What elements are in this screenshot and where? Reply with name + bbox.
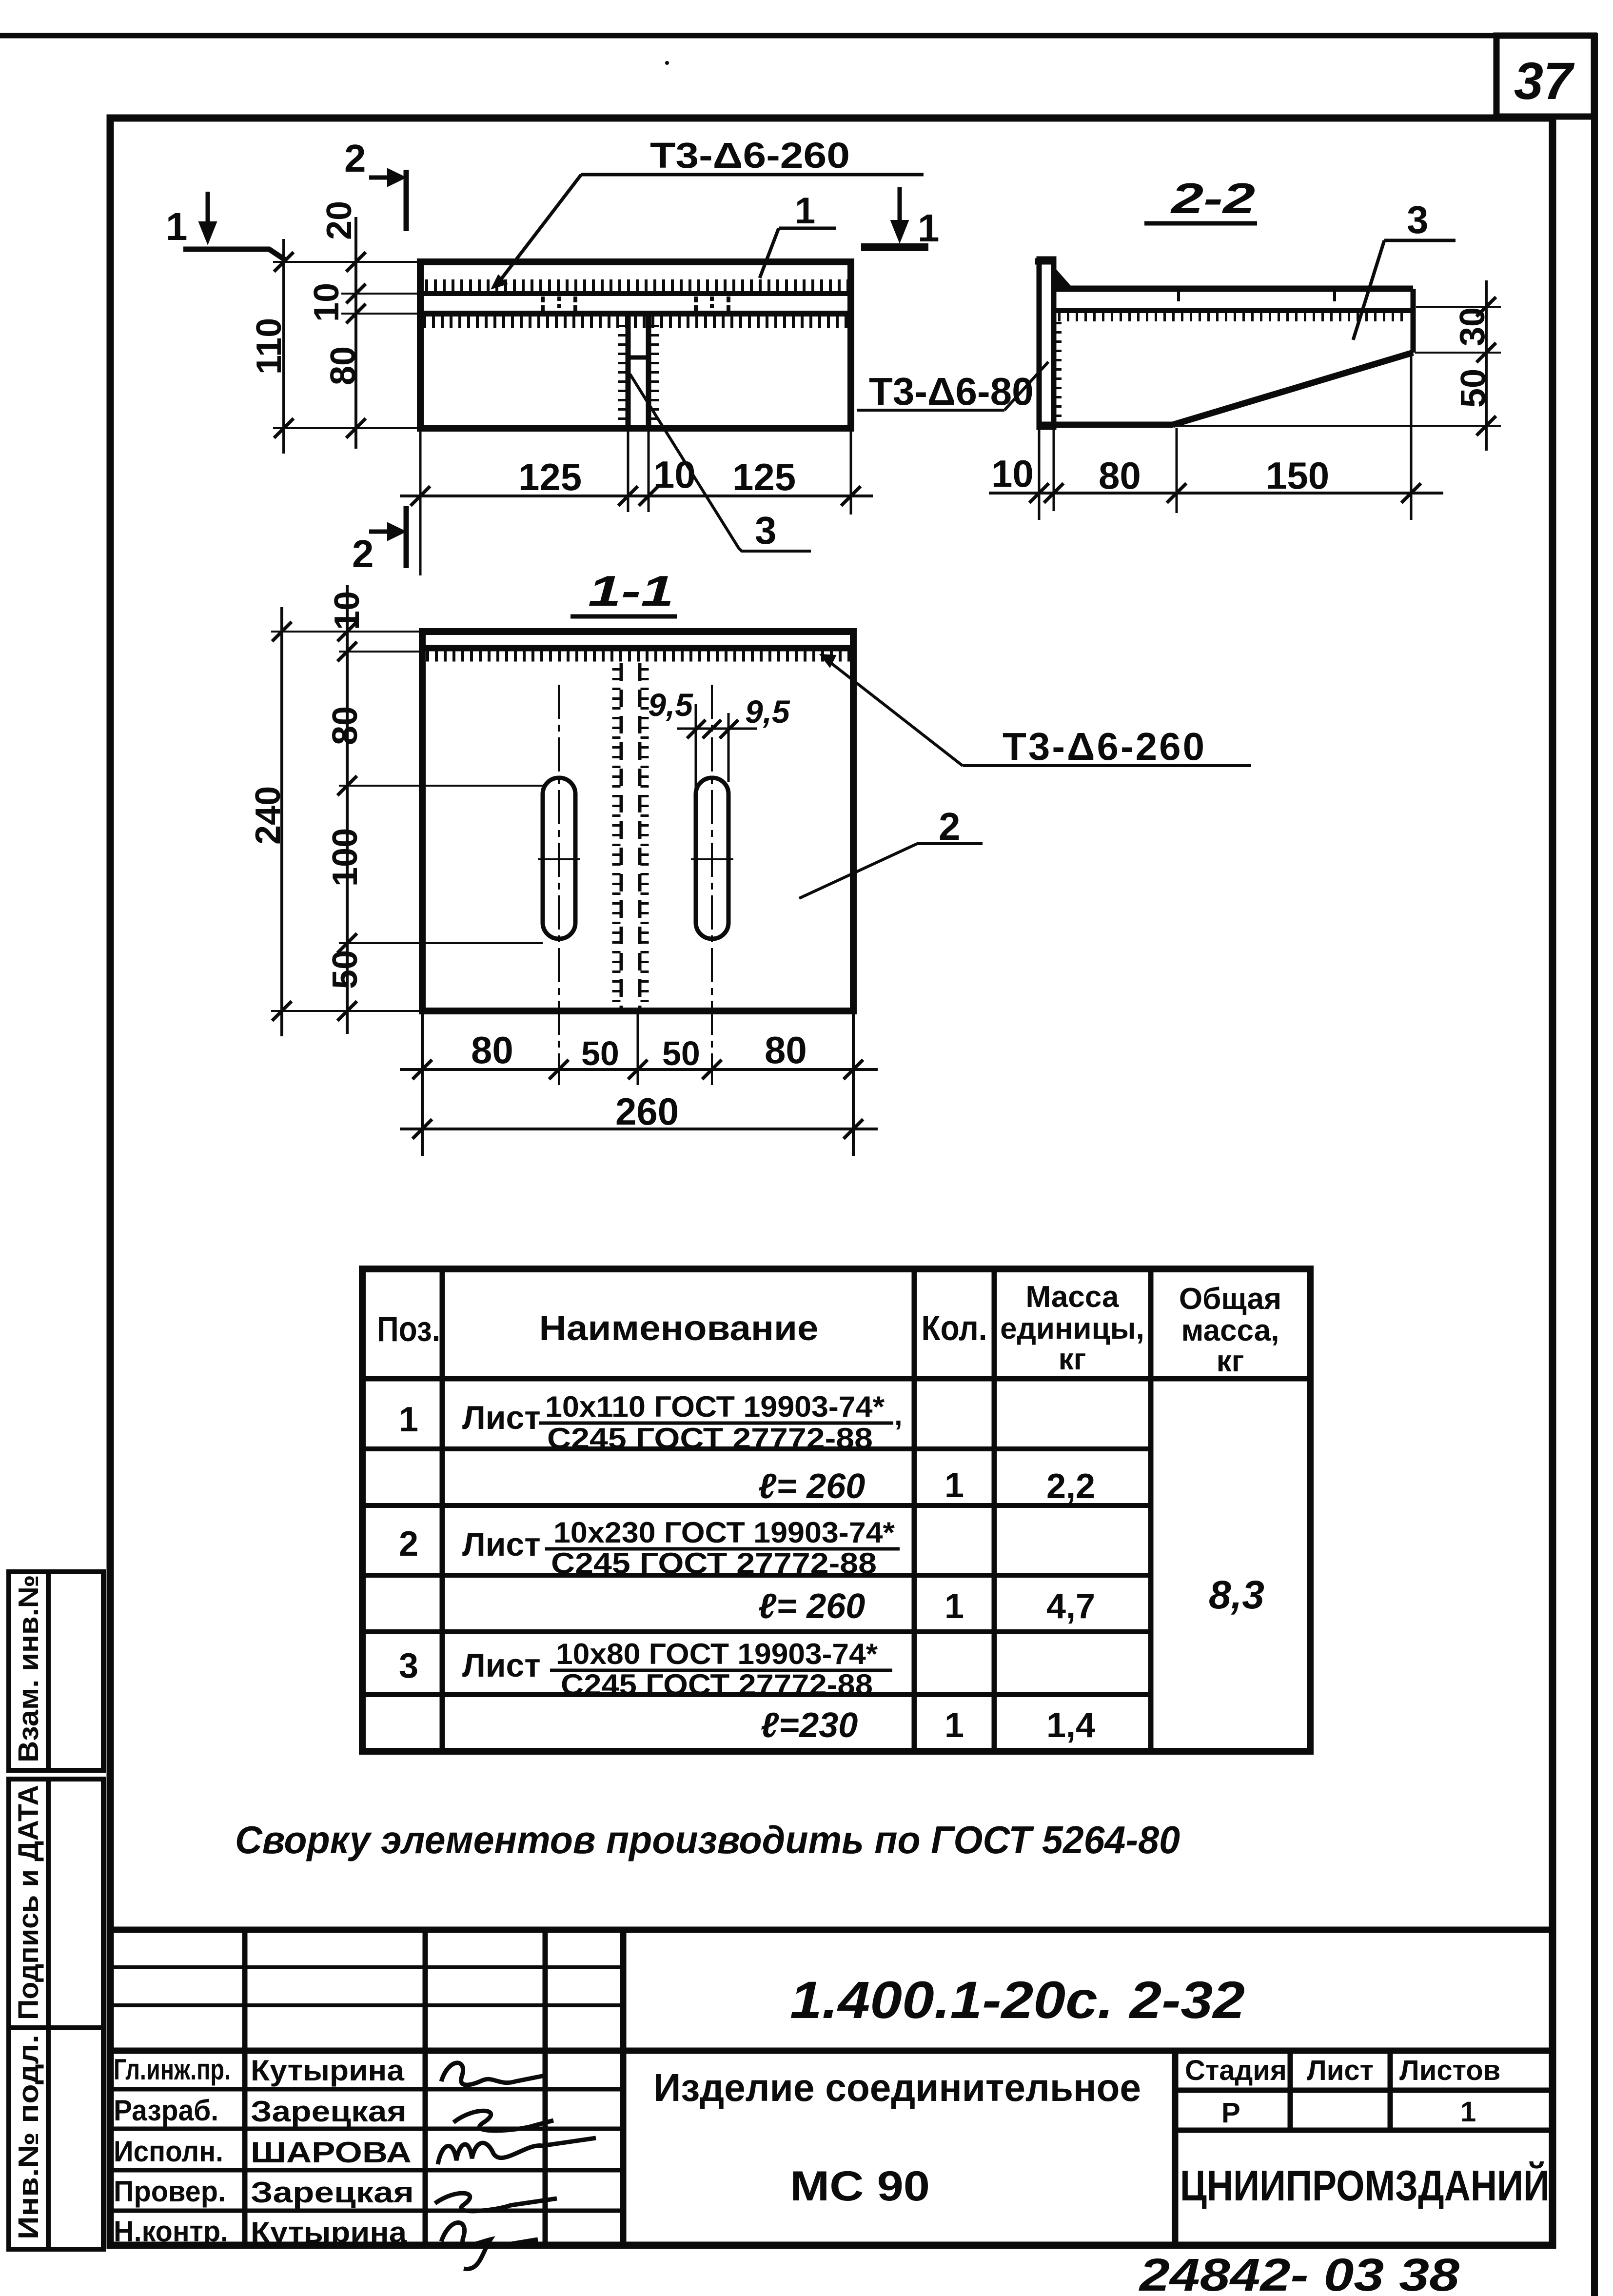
svg-text:100: 100 bbox=[326, 828, 365, 887]
svg-text:80: 80 bbox=[1099, 454, 1141, 497]
svg-text:150: 150 bbox=[1266, 454, 1329, 497]
svg-text:125: 125 bbox=[518, 455, 582, 498]
svg-text:80: 80 bbox=[471, 1029, 513, 1071]
svg-text:10: 10 bbox=[328, 591, 367, 630]
svg-text:50: 50 bbox=[662, 1034, 700, 1072]
svg-text:50: 50 bbox=[1454, 369, 1493, 408]
svg-text:ℓ=230: ℓ=230 bbox=[761, 1706, 858, 1745]
svg-text:24842- 03 38: 24842- 03 38 bbox=[1139, 2249, 1460, 2296]
svg-text:Взам. инв.№: Взам. инв.№ bbox=[13, 1575, 44, 1762]
svg-text:8,3: 8,3 bbox=[1209, 1573, 1264, 1617]
svg-text:Лист: Лист bbox=[462, 1647, 541, 1684]
svg-text:240: 240 bbox=[249, 786, 288, 845]
svg-text:Кутырина: Кутырина bbox=[251, 2216, 407, 2249]
svg-text:Лист: Лист bbox=[1307, 2055, 1374, 2086]
svg-text:единицы,: единицы, bbox=[1000, 1312, 1144, 1346]
svg-text:Исполн.: Исполн. bbox=[114, 2135, 223, 2168]
svg-text:Сворку элементов производить п: Сворку элементов производить по ГОСТ 526… bbox=[235, 1818, 1180, 1861]
svg-text:Зарецкая: Зарецкая bbox=[251, 2176, 414, 2209]
svg-text:1: 1 bbox=[944, 1706, 964, 1745]
svg-text:10х80 ГОСТ 19903-74*: 10х80 ГОСТ 19903-74* bbox=[556, 1638, 878, 1670]
svg-text:С245 ГОСТ 27772-88: С245 ГОСТ 27772-88 bbox=[547, 1422, 873, 1455]
svg-text:30: 30 bbox=[1453, 307, 1492, 346]
svg-text:ℓ= 260: ℓ= 260 bbox=[758, 1467, 865, 1506]
svg-text:1: 1 bbox=[166, 205, 188, 248]
svg-text:10: 10 bbox=[307, 283, 346, 322]
svg-text:ℓ= 260: ℓ= 260 bbox=[758, 1587, 865, 1626]
svg-text:Кутырина: Кутырина bbox=[251, 2054, 405, 2087]
svg-text:1-1: 1-1 bbox=[588, 567, 674, 615]
svg-text:Инв.№ подл.: Инв.№ подл. bbox=[13, 2035, 44, 2239]
svg-text:1.400.1-20с. 2-32: 1.400.1-20с. 2-32 bbox=[790, 1970, 1245, 2029]
svg-text:Н.контр.: Н.контр. bbox=[114, 2215, 228, 2248]
svg-text:Кол.: Кол. bbox=[922, 1309, 987, 1348]
svg-text:,: , bbox=[894, 1399, 903, 1431]
svg-text:Листов: Листов bbox=[1399, 2055, 1500, 2086]
svg-text:Наименование: Наименование bbox=[539, 1309, 819, 1348]
svg-text:Стадия: Стадия bbox=[1185, 2055, 1287, 2086]
svg-text:Провер.: Провер. bbox=[114, 2175, 226, 2208]
svg-text:Гл.инж.пр.: Гл.инж.пр. bbox=[114, 2053, 231, 2086]
svg-text:9,5: 9,5 bbox=[745, 693, 790, 730]
svg-text:2: 2 bbox=[939, 805, 961, 848]
svg-text:260: 260 bbox=[615, 1090, 679, 1133]
svg-text:МС 90: МС 90 bbox=[790, 2163, 930, 2210]
svg-text:Лист: Лист bbox=[462, 1526, 541, 1563]
svg-text:2,2: 2,2 bbox=[1046, 1467, 1095, 1506]
svg-text:3: 3 bbox=[1407, 198, 1429, 241]
svg-text:10х230 ГОСТ 19903-74*: 10х230 ГОСТ 19903-74* bbox=[553, 1516, 895, 1549]
svg-text:4,7: 4,7 bbox=[1046, 1587, 1095, 1626]
svg-text:ЦНИИПРОМЗДАНИЙ: ЦНИИПРОМЗДАНИЙ bbox=[1180, 2161, 1550, 2210]
svg-text:1: 1 bbox=[944, 1466, 964, 1505]
svg-text:20: 20 bbox=[320, 201, 359, 240]
svg-text:1,4: 1,4 bbox=[1046, 1706, 1095, 1745]
svg-text:10: 10 bbox=[653, 453, 696, 496]
svg-text:80: 80 bbox=[326, 706, 365, 745]
svg-text:2: 2 bbox=[344, 137, 366, 180]
svg-text:2: 2 bbox=[352, 532, 374, 575]
svg-text:Поз.: Поз. bbox=[377, 1310, 440, 1349]
svg-text:кг: кг bbox=[1217, 1345, 1244, 1378]
svg-text:Общая: Общая bbox=[1179, 1282, 1281, 1316]
svg-text:50: 50 bbox=[581, 1034, 619, 1072]
svg-text:Т3-Δ6-260: Т3-Δ6-260 bbox=[1003, 725, 1206, 768]
svg-text:кг: кг bbox=[1059, 1343, 1086, 1376]
svg-text:37: 37 bbox=[1514, 51, 1575, 110]
svg-text:3: 3 bbox=[755, 509, 777, 552]
svg-text:1: 1 bbox=[944, 1587, 964, 1626]
svg-text:80: 80 bbox=[765, 1029, 807, 1071]
svg-text:Лист: Лист bbox=[462, 1399, 541, 1436]
svg-text:2-2: 2-2 bbox=[1170, 174, 1255, 222]
svg-text:3: 3 bbox=[399, 1646, 418, 1685]
svg-text:Разраб.: Разраб. bbox=[114, 2094, 218, 2127]
svg-text:1: 1 bbox=[795, 190, 815, 232]
svg-text:110: 110 bbox=[250, 318, 289, 375]
svg-text:Изделие соединительное: Изделие соединительное bbox=[653, 2066, 1141, 2109]
svg-text:Т3-Δ6-260: Т3-Δ6-260 bbox=[650, 135, 850, 176]
svg-text:80: 80 bbox=[324, 346, 363, 385]
svg-text:ШАРОВА: ШАРОВА bbox=[251, 2136, 412, 2169]
svg-text:10: 10 bbox=[991, 452, 1034, 495]
svg-text:Подпись и ДАТА: Подпись и ДАТА bbox=[13, 1785, 44, 2020]
svg-text:С245 ГОСТ 27772-88: С245 ГОСТ 27772-88 bbox=[561, 1668, 873, 1701]
svg-text:Зарецкая: Зарецкая bbox=[251, 2095, 407, 2128]
svg-text:1: 1 bbox=[1460, 2096, 1476, 2128]
svg-text:1: 1 bbox=[918, 206, 940, 250]
svg-text:Масса: Масса bbox=[1025, 1280, 1119, 1314]
svg-text:2: 2 bbox=[399, 1524, 418, 1564]
svg-text:10х110 ГОСТ 19903-74*: 10х110 ГОСТ 19903-74* bbox=[545, 1390, 885, 1423]
svg-text:Р: Р bbox=[1221, 2097, 1240, 2129]
svg-text:масса,: масса, bbox=[1181, 1314, 1279, 1347]
svg-text:125: 125 bbox=[732, 455, 796, 498]
svg-text:9,5: 9,5 bbox=[648, 687, 693, 723]
svg-text:50: 50 bbox=[326, 950, 365, 989]
svg-text:1: 1 bbox=[399, 1400, 418, 1439]
svg-text:С245 ГОСТ 27772-88: С245 ГОСТ 27772-88 bbox=[551, 1547, 877, 1580]
